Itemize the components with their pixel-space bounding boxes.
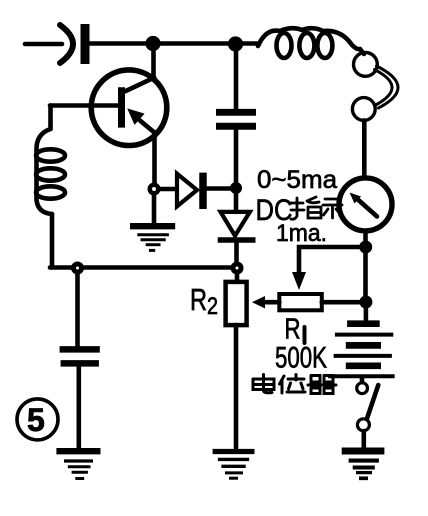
svg-text:R: R [190,282,207,317]
svg-text:2: 2 [207,293,218,320]
svg-text:500K: 500K [275,342,327,375]
svg-text:5: 5 [27,402,45,438]
svg-text:0~5ma: 0~5ma [257,166,337,194]
svg-text:1ma.: 1ma. [276,220,327,247]
